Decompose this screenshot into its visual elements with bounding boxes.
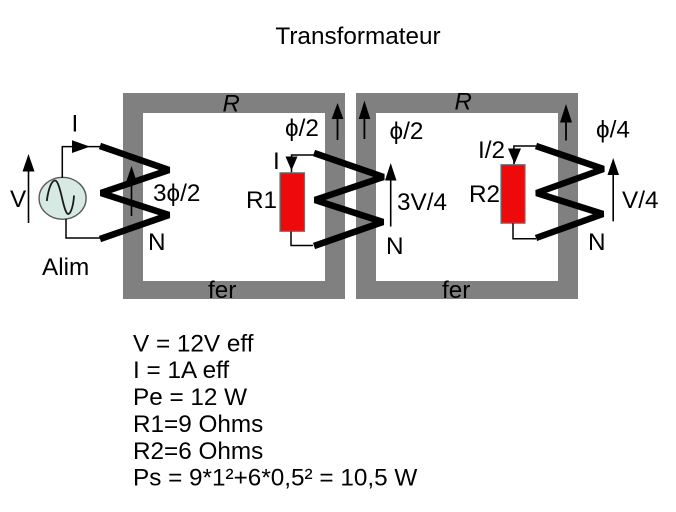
resistor R1 bbox=[280, 173, 305, 232]
svg-text:Transformateur: Transformateur bbox=[275, 23, 440, 50]
svg-text:ϕ/2: ϕ/2 bbox=[390, 118, 424, 145]
wire R1 bottom to coil 2 bbox=[291, 232, 313, 246]
coil 3 (tertiary winding, right leg core 2) bbox=[536, 146, 604, 238]
svg-text:I = 1A eff: I = 1A eff bbox=[133, 357, 229, 384]
coil 1 (primary winding) bbox=[100, 146, 169, 239]
svg-text:I/2: I/2 bbox=[478, 137, 505, 164]
svg-text:I: I bbox=[72, 111, 79, 138]
results text block bbox=[133, 331, 417, 492]
wire R2 top to coil 3 with arrow bbox=[508, 146, 536, 165]
wire source top to coil 1 with current arrow bbox=[62, 140, 100, 178]
svg-text:R1=9 Ohms: R1=9 Ohms bbox=[133, 411, 263, 438]
arrow flux core2 left leg bbox=[359, 101, 371, 139]
arrow 3phi/2 flux in core1 left leg bbox=[126, 166, 137, 216]
svg-text:N: N bbox=[588, 229, 606, 256]
arrow 3V/4 (coil 2 voltage) bbox=[385, 163, 397, 227]
svg-text:R: R bbox=[455, 89, 472, 116]
arrow flux core1 right leg bbox=[332, 103, 344, 140]
svg-text:V/4: V/4 bbox=[622, 187, 658, 214]
svg-text:R1: R1 bbox=[246, 187, 277, 214]
svg-text:N: N bbox=[386, 233, 404, 260]
arrow V/4 (coil 3 voltage) bbox=[608, 158, 620, 221]
svg-text:I: I bbox=[273, 148, 280, 175]
svg-text:Ps = 9*1²+6*0,5² = 10,5 W: Ps = 9*1²+6*0,5² = 10,5 W bbox=[133, 465, 417, 492]
svg-text:ϕ/4: ϕ/4 bbox=[596, 117, 630, 144]
arrow flux core2 right leg bbox=[560, 104, 572, 141]
svg-text:V: V bbox=[10, 186, 27, 213]
wire R1 top to coil 2 with arrow bbox=[286, 155, 315, 173]
wire R2 bottom to coil 3 bbox=[513, 223, 536, 239]
svg-text:V = 12V eff: V = 12V eff bbox=[133, 331, 254, 358]
arrow V (voltage arrow) bbox=[23, 154, 35, 223]
wire source bottom to coil 1 bbox=[66, 219, 100, 238]
svg-text:3V/4: 3V/4 bbox=[397, 189, 447, 216]
svg-text:N: N bbox=[148, 229, 166, 256]
svg-text:fer: fer bbox=[208, 277, 236, 304]
svg-text:R2: R2 bbox=[469, 181, 500, 208]
svg-text:ϕ/2: ϕ/2 bbox=[285, 115, 319, 142]
AC source circle (Alim) bbox=[39, 177, 86, 219]
coil 2 (secondary winding, between cores) bbox=[314, 153, 384, 246]
svg-text:fer: fer bbox=[442, 277, 470, 304]
svg-text:Pe = 12 W: Pe = 12 W bbox=[133, 384, 247, 411]
svg-text:R: R bbox=[223, 91, 240, 118]
svg-text:Alim: Alim bbox=[42, 254, 89, 281]
core 1 (left iron core) bbox=[123, 93, 345, 299]
svg-text:3ϕ/2: 3ϕ/2 bbox=[153, 180, 200, 207]
resistor R2 bbox=[501, 165, 525, 224]
svg-text:R2=6 Ohms: R2=6 Ohms bbox=[133, 438, 263, 465]
core 2 (right iron core) bbox=[356, 93, 578, 299]
